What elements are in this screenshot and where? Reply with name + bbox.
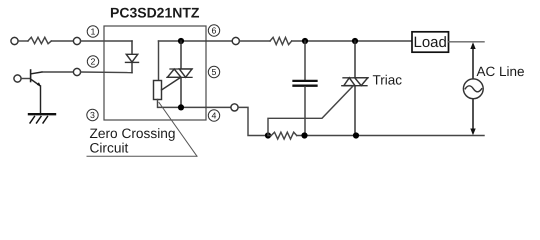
wire pin 4 out bbox=[206, 106, 231, 108]
pin number 5 bbox=[208, 66, 219, 77]
inner top rail (pin6 net) bbox=[159, 40, 207, 42]
node junction dot top bbox=[178, 38, 184, 44]
wire gate of photo-triac bbox=[162, 78, 181, 90]
pin number 1 bbox=[87, 26, 98, 37]
resistor R2 (snubber series, top) bbox=[270, 37, 292, 44]
wire pin 6 out bbox=[206, 40, 232, 42]
svg-text:3: 3 bbox=[90, 110, 95, 120]
svg-text:4: 4 bbox=[212, 111, 217, 121]
svg-text:Triac: Triac bbox=[373, 73, 403, 88]
package PC3SD21NTZ outline bbox=[104, 26, 206, 120]
callout leader to zero crossing circuit bbox=[87, 103, 197, 157]
transistor Q1 bbox=[31, 70, 42, 113]
pin number 2 bbox=[87, 56, 98, 67]
LED D1 (inside package) bbox=[126, 41, 139, 73]
svg-text:2: 2 bbox=[91, 57, 96, 67]
resistor R1 (input series) bbox=[28, 37, 51, 43]
node junction dot bottom bbox=[178, 104, 184, 110]
wire pin4 to bottom rail bbox=[238, 107, 268, 135]
svg-text:5: 5 bbox=[212, 67, 217, 77]
node junction top cap bbox=[302, 38, 308, 44]
wire bbox=[292, 40, 412, 42]
wire bbox=[18, 40, 28, 42]
svg-text:AC Line: AC Line bbox=[477, 64, 525, 79]
zero crossing circuit block (resistor) bbox=[154, 81, 162, 100]
wire triac gate path bbox=[268, 86, 353, 136]
node junction cap bottom bbox=[301, 132, 307, 138]
pin number 4 bbox=[208, 110, 219, 121]
wire stub below block bbox=[157, 100, 159, 108]
svg-text:Circuit: Circuit bbox=[90, 141, 129, 156]
wire bottom rail bbox=[268, 135, 271, 137]
svg-text:Zero Crossing: Zero Crossing bbox=[90, 126, 176, 141]
terminal input bottom-left bbox=[14, 75, 21, 82]
ground bbox=[29, 114, 55, 123]
node pin6 terminal bbox=[232, 37, 239, 44]
node junction gate bbox=[265, 132, 271, 138]
wire top rail right bbox=[239, 40, 270, 42]
load box bbox=[412, 32, 449, 52]
wire collector to pin 2 bbox=[42, 71, 73, 73]
node pin2 terminal bbox=[73, 68, 80, 75]
node pin1 terminal bbox=[73, 37, 80, 44]
svg-text:6: 6 bbox=[212, 26, 217, 36]
svg-text:PC3SD21NTZ: PC3SD21NTZ bbox=[110, 5, 200, 21]
node pin4 terminal bbox=[231, 104, 238, 111]
node junction top triac bbox=[352, 38, 358, 44]
wire bbox=[51, 40, 73, 42]
inner bottom rail (pin4 net) bbox=[159, 106, 207, 108]
photo-triac U1 (inside package) bbox=[162, 41, 193, 107]
triac Q2 (power triac) bbox=[342, 41, 368, 136]
wire branch to zero-crossing resistor bbox=[158, 41, 160, 81]
capacitor C1 bbox=[294, 41, 317, 136]
wire pin 1 into package bbox=[81, 40, 132, 42]
resistor R3 (gate, bottom) bbox=[271, 132, 297, 139]
pin number 3 bbox=[87, 109, 98, 120]
wire base bbox=[21, 78, 30, 80]
AC source symbol bbox=[463, 79, 483, 99]
svg-text:1: 1 bbox=[90, 27, 95, 37]
pin number 6 bbox=[208, 25, 219, 36]
wire pin 2 into package bbox=[81, 71, 132, 74]
terminal input top-left bbox=[11, 37, 18, 44]
node junction triac bottom bbox=[353, 132, 359, 138]
svg-text:Load: Load bbox=[414, 34, 447, 51]
wire load to line bbox=[449, 41, 484, 43]
AC line arrow bbox=[470, 42, 475, 135]
